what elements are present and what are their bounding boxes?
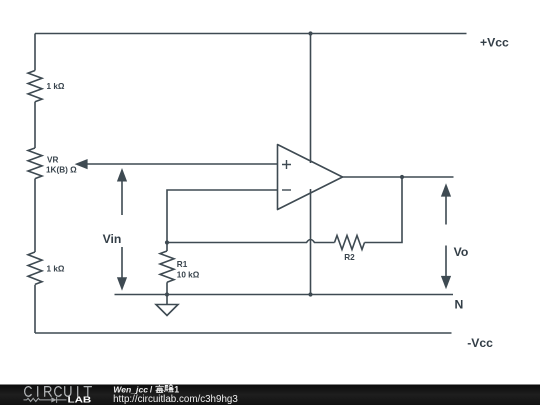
node output junction (400, 175, 404, 179)
wire op-amp V+ power pin (310, 34, 312, 164)
footer bar (0, 385, 540, 405)
svg-text:10 kΩ: 10 kΩ (177, 270, 200, 279)
svg-text:R2: R2 (344, 253, 355, 262)
svg-text:LAB: LAB (68, 395, 92, 405)
svg-text:R1: R1 (177, 260, 188, 269)
annotation Vo double arrow (441, 183, 451, 289)
CircuitLab logo wordmark CIRCUIT (25, 387, 92, 397)
wire R2 to output node (365, 177, 403, 243)
wire node A to R1 (166, 243, 168, 252)
footer title CJK glyph shi (156, 385, 164, 393)
annotation Vin double arrow (117, 168, 127, 291)
op-amp U1 triangle (278, 145, 343, 210)
resistor 1 kOhm top-left body (28, 71, 42, 102)
svg-text:-Vcc: -Vcc (467, 336, 493, 350)
wire between top resistor and VR (34, 102, 36, 148)
wire op-amp V- power pin (310, 189, 312, 295)
node R1 to N rail junction (165, 292, 169, 296)
svg-text:Vin: Vin (103, 232, 122, 246)
wire left rail upper (34, 34, 36, 71)
wire -Vcc bottom rail (35, 332, 452, 334)
potentiometer VR wiper arrow head (75, 159, 88, 169)
svg-text:Vo: Vo (454, 245, 469, 259)
wire op-amp output (343, 176, 454, 178)
op-amp U1 plus input marker (282, 160, 291, 169)
node op-amp V- pin to N rail junction (308, 292, 312, 296)
node A junction inverting input R1 R2 (165, 240, 169, 244)
resistor R2 body (335, 236, 365, 250)
svg-text:1 kΩ: 1 kΩ (47, 264, 65, 273)
footer title CJK glyph yan (165, 385, 174, 393)
resistor R1 body (160, 251, 174, 282)
svg-text:VR: VR (47, 156, 58, 165)
CircuitLab logo resistor and diode glyph (24, 397, 67, 403)
svg-text:1: 1 (174, 384, 179, 394)
wire node A to R2 with hop over power pin (167, 240, 335, 243)
svg-text:N: N (455, 297, 464, 311)
wire R1 to ground rail N (166, 282, 168, 294)
node junction top rail to op-amp V+ (308, 31, 312, 35)
svg-text:+Vcc: +Vcc (480, 36, 509, 50)
svg-text:http://circuitlab.com/c3h9hg3: http://circuitlab.com/c3h9hg3 (113, 394, 238, 405)
resistor 1 kOhm bottom-left body (28, 252, 42, 284)
svg-text:Wen_jcc: Wen_jcc (113, 384, 148, 394)
ground symbol (156, 295, 178, 316)
potentiometer VR body (28, 148, 42, 179)
op-amp U1 minus input marker (282, 189, 291, 191)
wire left rail lower (34, 285, 36, 333)
wire op-amp inverting input to node A (167, 190, 278, 243)
wire between VR and bottom resistor (34, 179, 36, 252)
svg-text:1 kΩ: 1 kΩ (47, 82, 65, 91)
svg-text:1K(B) Ω: 1K(B) Ω (46, 166, 77, 175)
wire VR wiper to op-amp noninverting input (87, 163, 278, 165)
wire N ground rail (115, 294, 454, 296)
wire +Vcc top rail (35, 33, 467, 35)
